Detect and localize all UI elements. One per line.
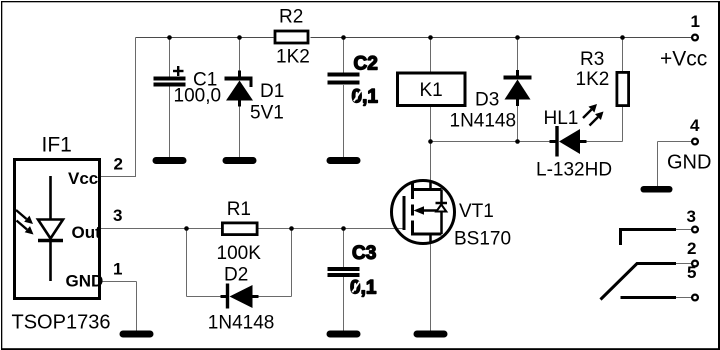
node D3 bottom (515, 139, 520, 144)
LED HL1 (555, 126, 558, 157)
node top rail D1 (237, 35, 242, 40)
svg-text:D2: D2 (224, 265, 248, 286)
diode D2 (226, 284, 229, 309)
relay contact arm 2 (601, 264, 677, 300)
svg-text:R1: R1 (227, 199, 251, 220)
svg-text:R3: R3 (580, 49, 604, 70)
wire top rail right segment (311, 37, 693, 39)
svg-text:Vcc: Vcc (68, 169, 98, 188)
wire C1 bottom (169, 87, 171, 159)
node out C3 (341, 226, 346, 231)
wire pin2 horizontal (101, 176, 136, 178)
wire contact2 lead (676, 263, 692, 265)
svg-text:5V1: 5V1 (250, 103, 284, 124)
wire pin1 horizontal (101, 281, 137, 283)
svg-text:100K: 100K (217, 243, 262, 264)
ground C2 (327, 157, 361, 164)
svg-text:1: 1 (691, 12, 700, 31)
node out D2 left (184, 226, 189, 231)
node out D2 right (289, 226, 294, 231)
svg-text:1N4148: 1N4148 (450, 111, 517, 132)
wire pin2 riser (135, 38, 137, 177)
svg-text:0,1: 0,1 (352, 87, 379, 108)
resistor R2 (275, 31, 308, 43)
wire K1 bottom to node (430, 107, 432, 142)
capacitor C2 (328, 73, 360, 77)
node top rail D3 (515, 35, 520, 40)
svg-text:1K2: 1K2 (276, 47, 310, 68)
zener diode D1 (238, 71, 241, 79)
diode D3 (516, 70, 519, 78)
wire D1 top (239, 38, 241, 73)
resistor R1 (222, 223, 257, 235)
svg-text:D1: D1 (260, 81, 284, 102)
svg-text:4: 4 (690, 116, 700, 135)
svg-text:C2: C2 (354, 54, 378, 75)
ground GND terminal (641, 186, 673, 193)
wire GND terminal down (657, 142, 659, 187)
svg-text:1: 1 (113, 260, 122, 279)
svg-text:R2: R2 (279, 7, 303, 28)
svg-text:100,0: 100,0 (174, 86, 222, 107)
svg-text:GND: GND (667, 152, 711, 174)
node top rail C1 (167, 35, 172, 40)
node top rail R3 (620, 35, 625, 40)
wire C2 bottom (343, 85, 345, 158)
svg-text:Out: Out (72, 223, 102, 242)
wire C1 top (169, 38, 171, 78)
wire D3 bottom (517, 104, 519, 142)
wire D2 right vertical (291, 229, 293, 297)
IC IF1 TSOP1736 (15, 160, 100, 299)
terminal 4 (692, 139, 698, 145)
relay contact 3 (621, 230, 677, 246)
capacitor C1 (154, 77, 186, 81)
wire D2 right horizontal (256, 296, 292, 298)
svg-text:2: 2 (687, 239, 696, 258)
wire contact3 lead (676, 229, 692, 231)
svg-text:K1: K1 (420, 80, 443, 101)
svg-text:3: 3 (113, 206, 122, 225)
node top rail C2 (341, 35, 346, 40)
wire C3 bottom (343, 277, 345, 331)
svg-text:IF1: IF1 (42, 134, 72, 157)
resistor R3 (617, 72, 629, 105)
MOSFET VT1 (392, 181, 455, 244)
svg-text:1K2: 1K2 (576, 69, 610, 90)
svg-text:3: 3 (687, 207, 696, 226)
wire K1 top (430, 38, 432, 73)
svg-text:5: 5 (687, 263, 696, 282)
wire D3 top (517, 38, 519, 72)
terminal 1 (692, 35, 698, 41)
wire contact5 lead (676, 297, 692, 299)
ground C1 (153, 157, 187, 164)
node relay coil bottom (428, 139, 433, 144)
wire R3 bottom (622, 107, 624, 142)
ground D1 (223, 157, 257, 164)
wire C3 top (343, 229, 345, 268)
relay contact 5 (621, 296, 677, 299)
svg-text:L-132HD: L-132HD (536, 159, 612, 180)
ground C3 (327, 331, 361, 338)
relay K1 (398, 73, 466, 106)
svg-text:C3: C3 (352, 243, 376, 264)
ground VT1 source (414, 331, 448, 338)
wire pin1 down (136, 282, 138, 332)
svg-text:VT1: VT1 (459, 201, 494, 222)
svg-text:TSOP1736: TSOP1736 (12, 312, 111, 334)
wire drain riser (430, 142, 432, 191)
node top rail K1 (428, 35, 433, 40)
wire C2 top (343, 38, 345, 74)
wire R3 top (622, 38, 624, 73)
svg-text:0,1: 0,1 (350, 278, 377, 299)
svg-text:GND: GND (66, 271, 104, 290)
svg-text:2: 2 (114, 154, 123, 173)
svg-text:HL1: HL1 (544, 108, 579, 129)
wire top rail left segment (136, 37, 274, 39)
svg-text:D3: D3 (475, 89, 499, 110)
wire out line (101, 228, 404, 230)
terminal 2 (692, 261, 698, 267)
wire D2 left vertical (186, 229, 188, 297)
ground IF1 (120, 331, 154, 338)
wire source down (430, 234, 432, 331)
terminal 3 (692, 227, 698, 233)
wire GND terminal horizontal (658, 141, 693, 143)
svg-text:1N4148: 1N4148 (208, 312, 275, 333)
terminal 5 (692, 295, 698, 301)
wire relay coil node rail (431, 141, 551, 143)
wire D2 left horizontal (187, 296, 224, 298)
photodiode inside IF1 (49, 176, 52, 219)
svg-text:+Vcc: +Vcc (660, 48, 707, 71)
svg-text:BS170: BS170 (454, 229, 511, 250)
wire D1 bottom (239, 104, 241, 158)
capacitor C3 (328, 267, 360, 271)
wire LED to R3 (586, 141, 623, 143)
